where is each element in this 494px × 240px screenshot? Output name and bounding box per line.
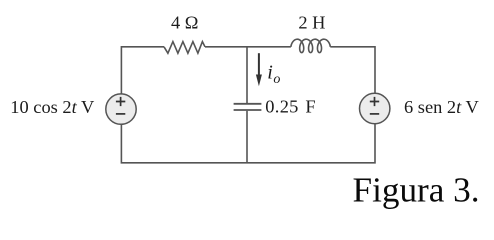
svg-text:io: io bbox=[267, 61, 280, 86]
svg-text:6 sen 2t V: 6 sen 2t V bbox=[404, 97, 479, 117]
svg-text:Figura 3.: Figura 3. bbox=[353, 171, 480, 210]
svg-text:0.25 F: 0.25 F bbox=[265, 96, 316, 116]
svg-text:4 Ω: 4 Ω bbox=[171, 13, 198, 33]
svg-text:2 H: 2 H bbox=[298, 13, 325, 33]
svg-text:10 cos 2t V: 10 cos 2t V bbox=[10, 97, 95, 117]
